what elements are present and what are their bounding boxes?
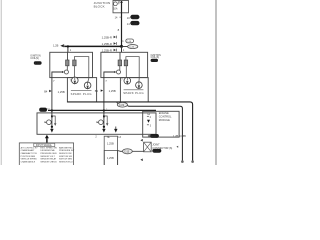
connector B-103 (black oval) [34,61,42,64]
pin connector arrow below sensor 2 [103,127,105,129]
svg-text:B4: B4 [44,89,48,93]
svg-text:ENG. SPEED SW: ENG. SPEED SW [40,147,56,149]
svg-text:B-103: B-103 [35,63,41,65]
svg-text:B-02: B-02 [151,136,156,138]
wire: stub to connector oval [122,46,129,48]
sensor 2 branch with arrow [104,116,107,123]
wire: feed to left coil [64,45,121,47]
svg-text:CONTROL: CONTROL [159,115,172,119]
svg-text:VEHICLE SPEED: VEHICLE SPEED [21,159,38,161]
wire: secondary top routing to plug 4 [126,57,139,82]
wire: spark plug ground bus [67,102,192,161]
svg-text:PRESSURE SW: PRESSURE SW [59,150,74,152]
spark plug P4 [136,82,143,89]
connector mark on ground wire [176,146,178,148]
connector C-142 (white oval) [126,39,134,43]
wire: oval to right ground drop [128,106,183,162]
shield box below sensor [104,136,117,150]
ECM pin 2 tick [147,115,149,117]
connector oval C-13 [123,149,133,154]
wire: shield left down to bottom [103,151,105,166]
svg-text:SENSOR VOLT: SENSOR VOLT [40,156,55,158]
input signal header box [34,143,55,146]
connector arrow into transistor [62,71,64,73]
svg-text:SWITCH SEN: SWITCH SEN [59,159,72,161]
svg-text:SENSOR SW: SENSOR SW [59,153,72,155]
node: sensor 1 out [51,126,53,128]
svg-text:CAMSHAFT POS: CAMSHAFT POS [21,152,38,155]
svg-text:SPARK PLUG: SPARK PLUG [123,91,143,95]
transistor Q1 (circle) [64,70,68,74]
svg-text:B-132: B-132 [152,60,158,62]
svg-text:SPARK PLUG: SPARK PLUG [71,92,92,96]
svg-text:PRESSURE SEN: PRESSURE SEN [40,153,57,155]
junction block box [113,1,129,13]
ECM pin 3 tick [147,124,149,126]
svg-text:ENGINE: ENGINE [159,111,169,115]
svg-text:B4: B4 [95,89,99,93]
spark plug box no.2 [120,78,148,102]
connector arrow at feed wire left end [60,45,63,48]
wire: secondary top routing to plug 2 [74,57,88,83]
connector B-02 (black oval) below ECM [148,135,150,137]
ground terminal right inner [181,160,184,163]
svg-text:MODULE: MODULE [159,118,170,122]
connector C-24 (black oval) [130,21,139,25]
coil L1 primary winding [66,60,69,66]
coil L2 primary winding [118,60,122,66]
svg-text:SENSOR RELAY: SENSOR RELAY [40,158,56,161]
svg-text:1,25B: 1,25B [109,89,116,93]
sensor 1 pickup circle [47,120,52,125]
wire: primary bottom to transistor (coil2) [119,66,121,70]
svg-text:1,25B: 1,25B [58,90,65,94]
svg-text:10A: 10A [113,8,118,11]
wire: fuse output vertical [121,1,123,46]
page border right [215,0,217,165]
connector B-102 (black oval) [152,149,161,153]
sensor 2 pickup circle [99,120,104,125]
connector oval C-09 [117,103,127,108]
spark plug P2 [84,82,91,89]
ignition coil no.1 box [50,52,93,77]
wire: drop to right coil pin 1 [121,46,123,52]
input signal table rows [21,146,75,163]
engine control module box [143,111,179,137]
ignition failure sensor box [37,113,156,134]
svg-text:BAROMETRIC: BAROMETRIC [59,146,73,149]
svg-text:POSITION SEN: POSITION SEN [21,156,36,158]
svg-text:COIL(S): COIL(S) [30,58,39,60]
svg-text:1,2B: 1,2B [53,43,59,47]
node: main feed junction [120,45,123,48]
svg-text:SENSOR ECU: SENSOR ECU [59,161,73,163]
node: bus left drop [51,109,53,111]
spark plug separator line [71,90,92,92]
connector triangle between ECM pins [147,120,150,123]
wire: secondary bottom to plug 1 [73,66,75,78]
spark plug separator line 2 [124,89,144,91]
svg-text:DIFFERENTIAL: DIFFERENTIAL [40,149,55,152]
wire: shield to joint connector [118,150,125,153]
svg-text:C-09: C-09 [119,105,125,107]
spark plug P3 [124,77,131,84]
svg-text:BLOCK: BLOCK [94,5,105,9]
wire: secondary bottom to plug 3 [125,66,127,78]
svg-text:1,25B-R: 1,25B-R [102,42,112,46]
wire: drop to left coil pin 1 [67,46,69,52]
spark plug P1 [72,77,79,84]
svg-text:SENSOR CHECK: SENSOR CHECK [40,161,57,163]
transistor Q2 (circle) [117,70,121,74]
wire: left drop through sensor [51,111,53,127]
sensor 1 contact square [51,115,53,117]
sensor 2 contact square [103,115,105,117]
node: sensor 2 out [103,126,105,128]
input signal table box [19,143,73,166]
wire: bus tap to connector oval [116,102,118,104]
svg-text:CRANKSHAFT: CRANKSHAFT [21,149,36,152]
svg-text:C-13: C-13 [124,151,130,153]
spark plug box no.1 [67,78,96,102]
wire: shield right down to bottom [117,151,119,166]
svg-text:1,25B: 1,25B [107,156,114,160]
joint connector bottom lead mark [140,159,142,161]
svg-text:CRANK ANGLE: CRANK ANGLE [21,160,36,163]
joint connector top lead mark [140,139,142,141]
svg-text:1,25B-R: 1,25B-R [102,35,112,39]
joint connector box [144,142,152,152]
svg-text:B-102: B-102 [153,151,160,153]
svg-text:C-25: C-25 [132,16,138,19]
wire: primary return riser [52,72,62,111]
sensor 1 branch with arrow [52,116,55,123]
coil L2 secondary winding [124,60,128,66]
arrow to input signal table [45,135,49,139]
ground terminal right outer [191,160,194,163]
wire: pin1 to primary winding (coil2) [119,52,121,60]
pin connector arrow below sensor 1 [51,127,53,129]
wire: primary return bus [48,109,156,111]
connector B-23 (black oval) at bus left end [39,108,47,112]
svg-text:A/T CONTROL RY: A/T CONTROL RY [21,146,39,149]
svg-text:C-54: C-54 [130,47,136,49]
svg-text:1,25B-R: 1,25B-R [102,48,112,52]
ignition coil no.2 box [101,52,148,77]
wire: oval to joint connector [132,150,143,152]
connector C-25 (black oval) [130,15,139,19]
fuse F (circle) [114,2,118,6]
coil L1 secondary winding [73,60,76,66]
connector oval C-54 [128,45,138,49]
connector B-132 (black oval) [151,59,158,62]
wire: pin1 to primary winding [67,52,69,60]
wire: primary return riser (coil2) [104,72,114,111]
wire: right drop through sensor [103,111,105,127]
connector arrow into transistor (coil2) [114,71,116,73]
pin connector arrow sensor output [114,129,117,133]
wire: primary bottom to transistor [66,66,68,70]
node: bus right drop [103,109,105,111]
svg-text:1,25B: 1,25B [107,142,114,146]
svg-text:IGNITION SW: IGNITION SW [59,156,72,158]
svg-text:C-24: C-24 [132,22,138,25]
svg-text:0,85B: 0,85B [179,135,186,138]
page border left [0,0,2,165]
